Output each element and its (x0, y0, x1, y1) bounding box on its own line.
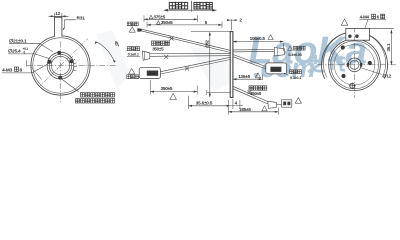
extension under plate (207, 90, 230, 95)
rotor signal wires (150, 53, 230, 56)
dia62 dimension line (209, 32, 211, 97)
right view bottom hole (350, 83, 355, 88)
dia12 label (360, 67, 382, 74)
left view bore circle (51, 56, 69, 74)
svg-text:4-M4: 4-M4 (360, 14, 370, 19)
left view screw hole dot top (57, 51, 61, 55)
svg-text:12: 12 (55, 11, 60, 16)
left view diagonal centerline lower-left (40, 66, 61, 87)
svg-text:350±5: 350±5 (152, 46, 164, 51)
right view screw dot upper-left (341, 45, 345, 49)
right view outer lip circle (331, 41, 379, 89)
left view knurl ticks (70, 57, 77, 71)
svg-text:0.3±0.1: 0.3±0.1 (290, 76, 301, 80)
stator tail wires (233, 86, 268, 104)
dim 135 (233, 75, 262, 81)
header rotor arrow (164, 9, 192, 11)
right view flange lip arc (323, 32, 385, 78)
dimension 12 (49, 13, 69, 19)
svg-text:6: 6 (377, 14, 380, 19)
stator HDMI label (290, 70, 302, 74)
rotor power label (127, 22, 138, 26)
rotor hdmi flag (129, 68, 135, 74)
left view bolt circle 21 (49, 54, 71, 76)
stator power wires (233, 50, 274, 52)
svg-text:350±5: 350±5 (161, 86, 173, 91)
header rotor label (169, 2, 187, 9)
right view crosshair (318, 64, 397, 66)
left view screw hole dot right (69, 59, 73, 63)
stator wire length label (249, 86, 267, 90)
rotor HDMI clip (185, 67, 189, 71)
svg-text:185±5: 185±5 (239, 107, 251, 112)
angle dimension 45 (96, 42, 115, 63)
rotor wire length label (152, 41, 170, 45)
left view outer circle (31, 36, 90, 95)
svg-text:135±5: 135±5 (238, 74, 250, 79)
svg-text:104±0.5: 104±0.5 (250, 36, 266, 41)
svg-text:5: 5 (205, 20, 208, 25)
header divider (191, 1, 193, 12)
stator HDMI connector (266, 63, 287, 74)
dim 4 (230, 99, 243, 109)
rotor power wire bundle (142, 29, 231, 52)
stator tail clip (247, 90, 251, 94)
stator tail flag (295, 98, 301, 104)
left view screw hole dot bottom (58, 76, 62, 80)
header stator label (194, 2, 212, 9)
dim 375 line (144, 18, 198, 20)
stator power label (288, 46, 293, 50)
right view top tab (346, 28, 370, 40)
right view flag (341, 19, 348, 25)
svg-text:350±5: 350±5 (250, 91, 262, 96)
rotor HDMI wires (160, 57, 230, 74)
watermark CJK char 1 (307, 55, 324, 72)
svg-text:HDMI: HDMI (148, 72, 157, 76)
dim 350 flag (157, 21, 161, 24)
right view screw dot right (368, 61, 372, 65)
right view screw dot lower-left (341, 74, 345, 78)
note leader from bottom screw (61, 78, 79, 91)
flange plate (230, 32, 233, 98)
rotor power terminal lug (137, 28, 141, 32)
rotor HDMI connector (139, 67, 160, 78)
dim 375 flag (149, 15, 153, 18)
rotor power wire clip (170, 37, 174, 41)
svg-text:HDMI: HDMI (271, 68, 280, 72)
left view screw hole dot left (48, 60, 52, 64)
watermark CJK char 2 (328, 56, 345, 70)
left view top tab (54, 17, 62, 37)
dim 104 (233, 42, 284, 51)
rotor signal clip (164, 55, 168, 59)
left view diagonal centerline upper-right (61, 39, 89, 66)
faint scan washes (96, 30, 238, 92)
svg-text:R31: R31 (77, 15, 86, 21)
stator HDMI wires (233, 55, 266, 69)
svg-text:∅25.4: ∅25.4 (8, 48, 21, 54)
svg-text:4: 4 (235, 100, 238, 105)
svg-text:∅12: ∅12 (383, 73, 392, 78)
right view outer circle (329, 39, 381, 91)
right view flange arc (322, 32, 388, 79)
header stator arrow (192, 9, 217, 11)
rotor signal label (127, 47, 139, 51)
svg-text:0.3±0.1: 0.3±0.1 (128, 53, 139, 57)
right view hub side notches (347, 63, 349, 67)
right view hub circles (348, 58, 362, 72)
dim 35.1 (370, 28, 394, 65)
rotor power flag (129, 27, 135, 32)
stator power lug (274, 48, 284, 56)
svg-text:2: 2 (239, 18, 242, 23)
stator tail connector box (282, 100, 292, 107)
svg-text:35.1: 35.1 (386, 43, 391, 52)
svg-text:375±5: 375±5 (153, 14, 165, 19)
note text line2 (76, 99, 115, 103)
svg-text:350±5: 350±5 (161, 20, 173, 25)
left view centerline end tick (26, 61, 28, 67)
dim 2 extension (227, 19, 236, 30)
dim 350 bottom (150, 80, 197, 95)
dim 185 (228, 100, 278, 115)
svg-text:0.3±0.05: 0.3±0.05 (288, 53, 301, 57)
rotor signal lug (142, 51, 150, 60)
right view bolt circle (334, 45, 375, 86)
stator tail lug (268, 101, 277, 108)
dim 350 line (147, 24, 222, 26)
left view vertical centerline (60, 42, 62, 104)
left view hub circle 25.4 (47, 52, 74, 79)
watermark logo text (245, 29, 372, 83)
svg-text:35.6±0.5: 35.6±0.5 (196, 100, 213, 105)
plate top extension line (191, 31, 230, 33)
left view outer lip circle (33, 38, 88, 93)
dim 35.6 (188, 96, 230, 109)
note text line1 (81, 93, 115, 97)
left view horizontal centerline (27, 65, 118, 67)
